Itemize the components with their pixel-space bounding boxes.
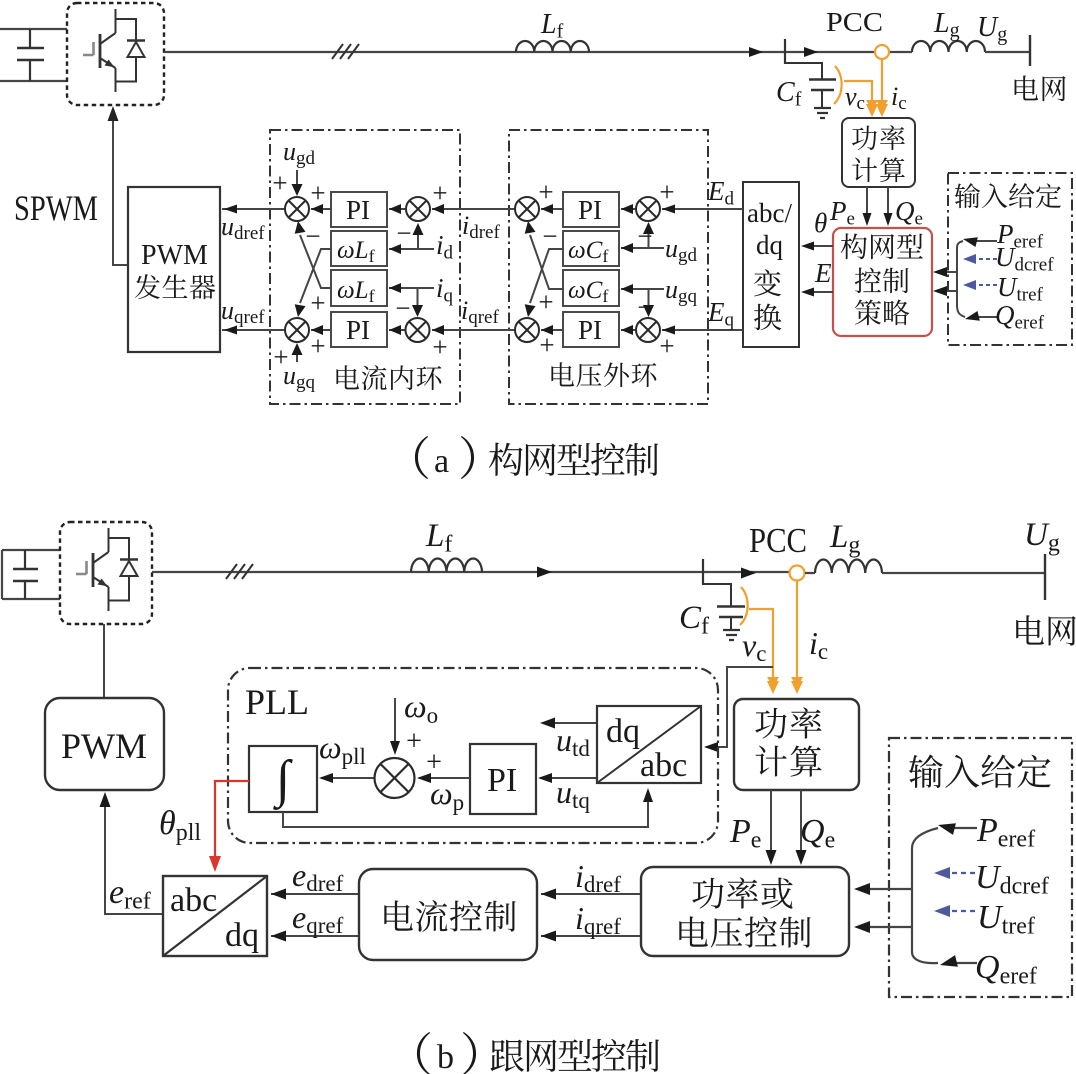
Pe output arrow	[866, 187, 868, 216]
svg-text:ωCf: ωCf	[568, 277, 608, 306]
svg-text:Cf: Cf	[679, 600, 709, 639]
wire sum to integrator (wpll)	[321, 777, 375, 779]
summing junction B4	[636, 318, 660, 342]
dc-link capacitor	[29, 29, 31, 81]
svg-text:PCC: PCC	[749, 521, 807, 560]
svg-text:utd: utd	[556, 722, 590, 761]
svg-text:Eq: Eq	[707, 297, 735, 330]
svg-text:Cf: Cf	[776, 77, 802, 110]
grid label 电网 (b)	[1016, 615, 1044, 644]
svg-text:utq: utq	[556, 774, 590, 813]
Peref input (b)	[952, 827, 977, 829]
svg-text:PI: PI	[578, 195, 602, 225]
line break marks (b)	[226, 564, 253, 579]
PCC node (a)	[875, 45, 889, 59]
svg-text:+: +	[659, 177, 674, 207]
svg-text:+: +	[659, 331, 674, 361]
svg-text:b: b	[437, 1039, 454, 1074]
wire A2 to PI	[389, 208, 406, 210]
Peref input	[972, 240, 997, 242]
filter capacitor Cf branch (a)	[785, 63, 822, 79]
caption (b)	[417, 1032, 430, 1074]
inverter dashed box (b)	[60, 522, 152, 624]
grid label 电网 (a)	[1015, 75, 1039, 100]
grid terminal Ug (b)	[1044, 554, 1046, 600]
vc sense bracket (b)	[740, 587, 748, 625]
filter inductor Lf (b)	[411, 558, 482, 572]
svg-text:−: −	[542, 221, 557, 251]
svg-text:Pe: Pe	[729, 813, 761, 853]
dc source wires	[0, 29, 67, 81]
id feedback wire	[389, 248, 434, 250]
svg-text:Ug: Ug	[977, 12, 1007, 45]
PLL summing junction	[375, 758, 415, 798]
summing junction A4	[406, 318, 430, 342]
svg-text:+: +	[310, 331, 325, 361]
svg-text:+: +	[272, 168, 287, 198]
svg-text:ugq: ugq	[665, 275, 698, 307]
eqref wire	[271, 935, 359, 937]
flow arrow after Lf	[537, 567, 552, 578]
svg-text:Utref: Utref	[977, 899, 1035, 939]
power calculation box (a) 功率计算	[842, 118, 915, 187]
ground symbol (b)	[723, 630, 740, 640]
svg-text:∫: ∫	[273, 751, 293, 810]
svg-text:eqref: eqref	[292, 899, 344, 938]
PWM generator box PWM发生器	[128, 187, 220, 352]
svg-text:ωCf: ωCf	[568, 237, 608, 266]
svg-text:a: a	[434, 443, 449, 480]
reference arrows into power/voltage control box	[858, 888, 912, 890]
svg-text:dq: dq	[756, 230, 784, 260]
svg-text:udref: udref	[221, 212, 265, 244]
ugq feedforward voltage loop	[621, 288, 664, 290]
svg-text:id: id	[436, 230, 454, 263]
summing junction A2	[406, 197, 430, 221]
PI box voltage d-axis	[563, 192, 619, 227]
dc source wires (b)	[2, 550, 60, 599]
svg-text:E: E	[814, 258, 832, 288]
PLL feedback wire	[283, 793, 648, 827]
wo reference input	[394, 698, 396, 741]
svg-text:Lg: Lg	[829, 519, 860, 558]
svg-text:iq: iq	[436, 273, 454, 306]
filter capacitor Cf branch (b)	[703, 584, 731, 606]
ugd feedforward voltage loop	[621, 247, 664, 249]
svg-text:abc: abc	[640, 747, 687, 784]
IGBT with antiparallel diode (b)	[76, 528, 138, 611]
svg-text:+: +	[432, 332, 447, 362]
svg-text:Lg: Lg	[933, 8, 960, 41]
dq/abc transform box (PLL)	[597, 706, 701, 783]
input reference box (b) 输入给定	[889, 738, 1072, 997]
wLf box q-axis	[331, 270, 387, 306]
Qeref input	[974, 316, 997, 318]
svg-text:ugd: ugd	[283, 137, 316, 169]
wire A4 to PI	[389, 329, 406, 331]
svg-text:−: −	[637, 292, 652, 322]
wire B3 to A4 (iqref)	[432, 329, 515, 331]
svg-text:Lf: Lf	[540, 9, 564, 42]
summing junction A1	[285, 197, 309, 221]
PCC node (b)	[790, 566, 805, 581]
junction tick of Cf branch	[784, 39, 786, 64]
abc/dq transform box (a)	[743, 182, 799, 347]
svg-text:+: +	[426, 747, 442, 778]
inverter dashed box (a)	[67, 3, 164, 105]
svg-text:θpll: θpll	[159, 805, 201, 846]
Ed wire	[662, 208, 743, 210]
flow arrow before PCC	[749, 47, 763, 57]
vc wire to PLL dq/abc	[706, 667, 773, 747]
svg-text:PWM: PWM	[141, 240, 208, 271]
svg-text:+: +	[538, 287, 553, 317]
Pe arrow (b)	[770, 790, 772, 855]
summing junction B1	[515, 197, 539, 221]
wire A3 to PWM generator (uqref)	[222, 329, 285, 331]
svg-text:edref: edref	[292, 857, 344, 896]
Qeref input (b)	[952, 962, 977, 964]
svg-text:Ug: Ug	[1024, 517, 1060, 556]
cross-coupling wLf2 to A1	[300, 235, 331, 288]
reference selector brace	[956, 252, 958, 305]
svg-text:abc: abc	[170, 882, 217, 919]
svg-text:iqref: iqref	[575, 900, 621, 939]
grid terminal Ug (a)	[1029, 35, 1031, 66]
wCf box d-axis	[563, 231, 619, 266]
eref wire abc/dq to PWM	[105, 800, 163, 914]
power or voltage control box 功率或电压控制	[641, 867, 849, 956]
grid-forming control strategy box 构网型控制策略	[833, 228, 932, 336]
svg-text:PI: PI	[346, 315, 370, 345]
integrator box	[249, 746, 317, 812]
wire PI to A3	[311, 329, 331, 331]
power calculation box (b) 功率计算	[734, 699, 859, 790]
svg-text:+: +	[310, 178, 325, 208]
svg-text:Qeref: Qeref	[975, 949, 1037, 989]
vc sense bracket	[834, 66, 842, 104]
svg-text:Lf: Lf	[425, 518, 452, 557]
Utref input dashed (b)	[946, 910, 975, 912]
svg-text:+: +	[273, 342, 288, 372]
vc sense wire	[844, 81, 872, 106]
svg-text:SPWM: SPWM	[14, 188, 98, 228]
svg-text:Pe: Pe	[829, 196, 855, 229]
svg-text:−: −	[396, 218, 411, 248]
grid inductor Lg (a)	[912, 41, 985, 52]
wire PI to sum (wp)	[419, 777, 470, 779]
reference arrows into control box	[940, 271, 957, 273]
svg-text:Peref: Peref	[976, 812, 1035, 852]
ground symbol (a)	[814, 108, 831, 118]
wire A1 to PWM generator (udref)	[222, 208, 285, 210]
Udcref input (dashed)	[974, 258, 997, 260]
flow arrow after tick (b)	[741, 568, 756, 579]
svg-text:−: −	[637, 221, 652, 251]
abc/dq transform box (b)	[163, 876, 267, 956]
PWM box (b)	[45, 698, 164, 790]
wCf box q-axis	[563, 270, 619, 306]
svg-text:vc: vc	[742, 627, 766, 666]
svg-text:eref: eref	[109, 874, 151, 914]
svg-text:idref: idref	[575, 858, 621, 897]
vc sense wire (b)	[749, 609, 773, 681]
svg-text:ωp: ωp	[430, 775, 464, 815]
svg-text:Qe: Qe	[800, 813, 835, 853]
edref wire	[271, 893, 359, 895]
junction tick of Cf branch (b)	[702, 559, 704, 585]
PI box current d-axis	[331, 192, 387, 227]
svg-text:PWM: PWM	[61, 726, 147, 766]
svg-text:dq: dq	[606, 713, 640, 750]
ac output wire (b)	[152, 571, 789, 573]
svg-text:Qe: Qe	[895, 196, 923, 229]
svg-text:ωo: ωo	[404, 688, 438, 728]
svg-text:vc: vc	[845, 82, 865, 114]
svg-text:PCC: PCC	[826, 7, 883, 37]
current inner loop dash-dot box 电流内环	[270, 130, 460, 404]
svg-text:PLL: PLL	[245, 682, 309, 722]
wire PI to A1	[311, 208, 331, 210]
Utref input (dashed)	[974, 284, 997, 286]
cross-coupling wCf2 to B1	[530, 235, 563, 289]
E output arrow	[810, 291, 833, 293]
wire B4 to PIv	[621, 329, 636, 331]
svg-text:idref: idref	[462, 211, 500, 243]
iq feedback wire	[389, 287, 434, 289]
summing junction B3	[515, 318, 539, 342]
svg-text:PI: PI	[487, 762, 517, 799]
svg-text:PI: PI	[346, 195, 370, 225]
svg-text:ic: ic	[891, 82, 907, 114]
Qe output arrow	[887, 187, 889, 216]
PI box voltage q-axis	[563, 312, 619, 347]
wire B1 to A2 (idref)	[432, 208, 515, 210]
theta_pll red wire	[215, 781, 249, 858]
svg-text:uqref: uqref	[221, 296, 265, 328]
current control box 电流控制	[359, 869, 537, 960]
svg-text:+: +	[432, 178, 447, 208]
theta output arrow	[810, 245, 833, 247]
utq wire to PI	[540, 777, 597, 779]
svg-text:+: +	[310, 288, 325, 318]
PI box current q-axis	[331, 312, 387, 347]
svg-text:+: +	[538, 177, 553, 207]
grid inductor Lg (b)	[815, 559, 882, 573]
line break marks	[332, 44, 359, 59]
caption (a)	[415, 436, 428, 479]
filter inductor Lf (a)	[516, 41, 589, 52]
svg-text:ugd: ugd	[665, 234, 698, 266]
utd output arrow	[548, 722, 597, 724]
Qe arrow (b)	[800, 790, 802, 855]
svg-text:ic: ic	[809, 625, 828, 664]
svg-text:−: −	[395, 293, 410, 323]
wire PIv to B1	[541, 208, 563, 210]
svg-text:dq: dq	[225, 917, 259, 954]
wire B2 to PIv	[621, 208, 636, 210]
cross-coupling wLf1 to A3	[300, 249, 331, 303]
summing junction A3	[285, 318, 309, 342]
summing junction B2	[636, 197, 660, 221]
svg-text:ωpll: ωpll	[319, 729, 366, 769]
svg-text:−: −	[305, 221, 320, 251]
svg-text:Udcref: Udcref	[975, 859, 1049, 899]
Eq wire	[662, 329, 743, 331]
idref wire	[541, 893, 641, 895]
svg-text:Ed: Ed	[707, 176, 735, 209]
svg-text:+: +	[539, 330, 554, 360]
ac output wire (a)	[164, 51, 874, 53]
flow arrow after tick	[804, 47, 818, 57]
wire PIv to B3	[541, 329, 563, 331]
dc-link capacitor (b)	[24, 550, 26, 599]
ic sense wire	[881, 59, 883, 106]
PI box (b)	[470, 744, 536, 814]
Udcref input dashed (b)	[946, 872, 975, 874]
svg-text:abc/: abc/	[747, 198, 792, 228]
wLf box d-axis	[331, 231, 387, 266]
gate drive arrow from PWM generator	[113, 118, 128, 265]
svg-text:+: +	[406, 726, 422, 757]
svg-text:iqref: iqref	[461, 296, 499, 328]
PLL dash-dot box	[228, 668, 718, 843]
svg-text:θ: θ	[814, 208, 827, 238]
IGBT with antiparallel diode (a)	[83, 9, 145, 92]
cross-coupling wCf1 to B3	[530, 249, 563, 303]
wire inverter to PWM (b)	[103, 624, 105, 698]
input reference box (a) 输入给定	[948, 173, 1072, 345]
selector brace (b)	[911, 848, 913, 952]
svg-text:PI: PI	[578, 315, 602, 345]
ic sense wire (b)	[796, 581, 798, 681]
voltage outer loop dash-dot box 电压外环	[509, 130, 708, 404]
iqref wire	[541, 935, 641, 937]
